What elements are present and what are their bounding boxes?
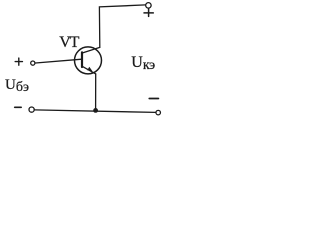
plus sign (Uke) [144, 9, 153, 17]
minus sign (Uke) [149, 98, 158, 100]
svg-text:VT: VT [59, 34, 79, 51]
terminal +Uke [146, 3, 152, 8]
transistor VT collector lead [82, 47, 100, 53]
wire top (collector to +Uke terminal) [99, 5, 145, 48]
wire base [36, 59, 82, 63]
wire emitter down [95, 74, 97, 110]
transistor VT base bar [81, 52, 83, 67]
svg-text:Uбэ: Uбэ [5, 77, 29, 95]
wire bottom [35, 110, 156, 113]
junction dot [93, 108, 98, 113]
transistor VT emitter arrow [87, 67, 92, 72]
transistor VT emitter lead [82, 66, 96, 74]
terminal +Ube [31, 61, 35, 65]
plus sign (Ube) [15, 58, 22, 65]
transistor VT circle [75, 47, 102, 74]
terminal -Ube [29, 107, 34, 112]
svg-text:Uкэ: Uкэ [131, 54, 155, 73]
minus sign (Ube) [15, 106, 22, 108]
terminal -Uke [156, 110, 161, 115]
